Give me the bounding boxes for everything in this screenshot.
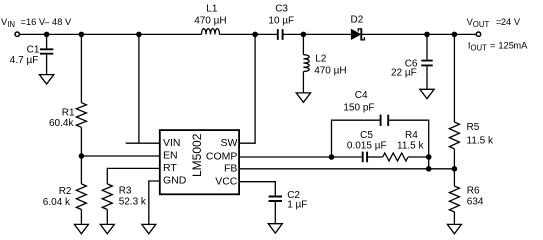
diode D2 (Schottky) xyxy=(351,30,360,40)
wire rail to R1 xyxy=(80,34,82,102)
wire VCC pin to C2 xyxy=(239,182,275,196)
svg-text:SW: SW xyxy=(220,137,237,149)
svg-text:VIN: VIN xyxy=(163,137,181,149)
ground (GND pin) xyxy=(142,224,156,233)
resistor R4 xyxy=(383,153,408,161)
wire L2 to ground xyxy=(302,72,304,93)
wire FB pin to R5/R6 junction xyxy=(239,168,454,170)
wire C1 bottom xyxy=(46,55,48,75)
svg-text:L1: L1 xyxy=(206,4,218,15)
svg-text:634: 634 xyxy=(467,196,484,207)
capacitor C4 xyxy=(381,115,389,126)
wire top rail: C3 right plate to D2 anode xyxy=(283,33,351,35)
wire SW pin to rail xyxy=(239,34,255,143)
node X (comp network to FB) xyxy=(426,154,432,160)
inductor L2 xyxy=(303,55,309,72)
wire R3 to ground xyxy=(106,210,108,225)
svg-text:C4: C4 xyxy=(355,90,368,101)
capacitor C3 xyxy=(278,29,283,40)
resistor R1 xyxy=(76,103,86,128)
wire R5 to FB node xyxy=(453,149,455,186)
resistor R3 xyxy=(102,184,112,210)
terminal VIN (open circle) xyxy=(15,32,19,36)
svg-text:R5: R5 xyxy=(467,122,480,133)
node: R1 tap on input rail xyxy=(79,32,85,38)
wire top rail: VIN terminal to L1 xyxy=(20,33,202,35)
wire top rail: L1 to C3 left plate xyxy=(220,33,278,35)
svg-text:D2: D2 xyxy=(351,14,364,25)
capacitor C4 branch wires xyxy=(332,120,429,169)
node: SW tap on rail xyxy=(252,32,258,38)
svg-text:1 µF: 1 µF xyxy=(287,199,307,210)
node R5/R6 junction xyxy=(452,166,458,172)
node EN junction xyxy=(79,153,85,159)
resistor R6 xyxy=(449,186,459,212)
svg-text:VCC: VCC xyxy=(215,175,238,187)
svg-text:11.5 k: 11.5 k xyxy=(467,136,494,147)
ground (C1) xyxy=(39,75,53,84)
wire GND pin to ground xyxy=(149,181,160,224)
node: VIN pin stub tap on rail xyxy=(136,32,142,38)
svg-text:150 pF: 150 pF xyxy=(343,102,374,113)
ground (R6) xyxy=(447,224,461,233)
wire R2 to ground xyxy=(80,210,82,225)
op-amp U1 LM5002 (IC box) xyxy=(160,130,239,194)
node: C6 tap on output rail xyxy=(424,32,430,38)
ground (L2) xyxy=(296,93,310,102)
wire C5 to R4 xyxy=(368,156,383,158)
svg-text:C3: C3 xyxy=(275,4,288,15)
node: C4 branch tap on COMP line xyxy=(329,154,335,160)
wire rail to VIN pin stub xyxy=(126,34,160,143)
svg-text:GND: GND xyxy=(163,175,187,187)
resistor R5 xyxy=(449,122,459,149)
wire R6 to ground xyxy=(453,212,455,225)
ground (R3) xyxy=(100,224,114,233)
inductor L1 xyxy=(202,29,220,35)
svg-text:10 µF: 10 µF xyxy=(268,16,294,27)
svg-text:52.3 k: 52.3 k xyxy=(119,196,147,207)
capacitor C6 xyxy=(421,61,432,66)
svg-text:COMP: COMP xyxy=(206,151,238,163)
node: C1 tap on input rail xyxy=(44,32,50,38)
svg-text:470 µH: 470 µH xyxy=(194,15,226,26)
svg-text:R3: R3 xyxy=(119,186,132,197)
resistor R2 xyxy=(76,184,86,210)
svg-text:11.5 k: 11.5 k xyxy=(397,141,424,152)
wire R4 to node X xyxy=(408,156,429,158)
wire R1 to EN node xyxy=(80,127,82,184)
wire rail to L2 xyxy=(302,34,304,54)
ground (R2) xyxy=(74,224,88,233)
svg-text:R6: R6 xyxy=(467,186,480,197)
wire C1 top xyxy=(46,34,48,48)
svg-text:R1: R1 xyxy=(62,107,75,118)
svg-text:FB: FB xyxy=(224,163,237,175)
svg-text:0.015 µF: 0.015 µF xyxy=(347,141,387,152)
node: R5 tap on output rail xyxy=(452,32,458,38)
wire top rail: D2 cathode to VOUT terminal xyxy=(361,33,475,35)
svg-text:R4: R4 xyxy=(405,130,418,141)
svg-text:RT: RT xyxy=(163,162,177,174)
wire C6 to ground xyxy=(426,66,428,89)
wire RT pin to R3 xyxy=(107,168,160,184)
svg-text:6.04 k: 6.04 k xyxy=(43,197,71,208)
wire COMP pin to C5 xyxy=(239,156,362,158)
node: L2 tap after C3 xyxy=(301,32,307,38)
svg-text:R2: R2 xyxy=(59,186,72,197)
svg-text:EN: EN xyxy=(163,150,178,162)
wire rail to R5 xyxy=(453,34,455,122)
wire EN node to EN pin xyxy=(81,155,159,157)
wire C2 to ground xyxy=(274,202,276,224)
terminal VOUT (open circle) xyxy=(476,32,480,36)
capacitor C5 xyxy=(363,152,367,163)
wire rail to C6 xyxy=(426,34,428,59)
svg-text:LM5002: LM5002 xyxy=(190,133,204,177)
svg-text:L2: L2 xyxy=(315,53,327,64)
svg-text:22 µF: 22 µF xyxy=(391,68,417,79)
capacitor C2 xyxy=(269,197,282,202)
capacitor C1 xyxy=(40,49,53,53)
svg-text:C5: C5 xyxy=(360,130,373,141)
node FB junction xyxy=(426,166,432,172)
ground (C2) xyxy=(268,224,282,233)
svg-text:470 µH: 470 µH xyxy=(314,66,346,77)
svg-text:60.4k: 60.4k xyxy=(49,118,74,129)
ground (C6) xyxy=(420,89,434,98)
svg-text:4.7 µF: 4.7 µF xyxy=(10,55,39,66)
